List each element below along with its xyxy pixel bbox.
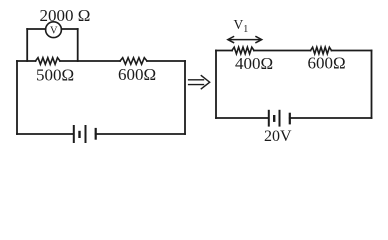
wire right circuit top: corner to R400 [216, 50, 232, 52]
svg-text:2000 Ω: 2000 Ω [40, 6, 91, 25]
wire R600 to top right corner [147, 60, 185, 62]
wire between R400 and R600 right circuit [254, 50, 311, 52]
wire voltmeter branch right vertical [77, 29, 79, 61]
resistor R 600ohm left circuit [120, 58, 147, 65]
wire between R500 and R600 (includes node of voltmeter branch) [60, 60, 120, 62]
wire right circuit right vertical [371, 51, 373, 119]
wire right circuit left vertical [215, 51, 217, 119]
battery B2 20V (right circuit) [269, 111, 290, 126]
implies arrow between circuits [189, 76, 210, 89]
wire left circuit left vertical [16, 61, 18, 134]
svg-text:400Ω: 400Ω [235, 54, 273, 73]
svg-text:600Ω: 600Ω [308, 54, 346, 73]
svg-text:V1: V1 [234, 17, 249, 35]
svg-text:600Ω: 600Ω [118, 65, 156, 84]
svg-text:20V: 20V [264, 128, 292, 145]
measurement arrow (double headed) over R400 [228, 37, 262, 43]
svg-text:500Ω: 500Ω [36, 66, 74, 85]
wire R600 to top right corner right circuit [332, 50, 372, 52]
resistor R 500ohm [36, 58, 61, 65]
wire right circuit bottom left segment [216, 117, 268, 119]
wire right circuit bottom right segment [290, 117, 372, 119]
wire left circuit bottom right segment [96, 133, 185, 135]
voltmeter V (circle) [46, 22, 62, 38]
resistor R 400ohm [232, 47, 254, 54]
wire voltmeter branch left vertical [26, 29, 28, 61]
battery B1 (left circuit) [74, 126, 96, 142]
resistor R 600ohm right circuit [311, 47, 332, 54]
wire left circuit bottom left segment [17, 133, 73, 135]
svg-text:V: V [50, 25, 58, 36]
wire voltmeter branch top right segment [61, 28, 77, 30]
wire voltmeter branch top left segment [27, 28, 45, 30]
wire left circuit top: corner to R 500 [17, 60, 36, 62]
wire left circuit right vertical [184, 61, 186, 134]
